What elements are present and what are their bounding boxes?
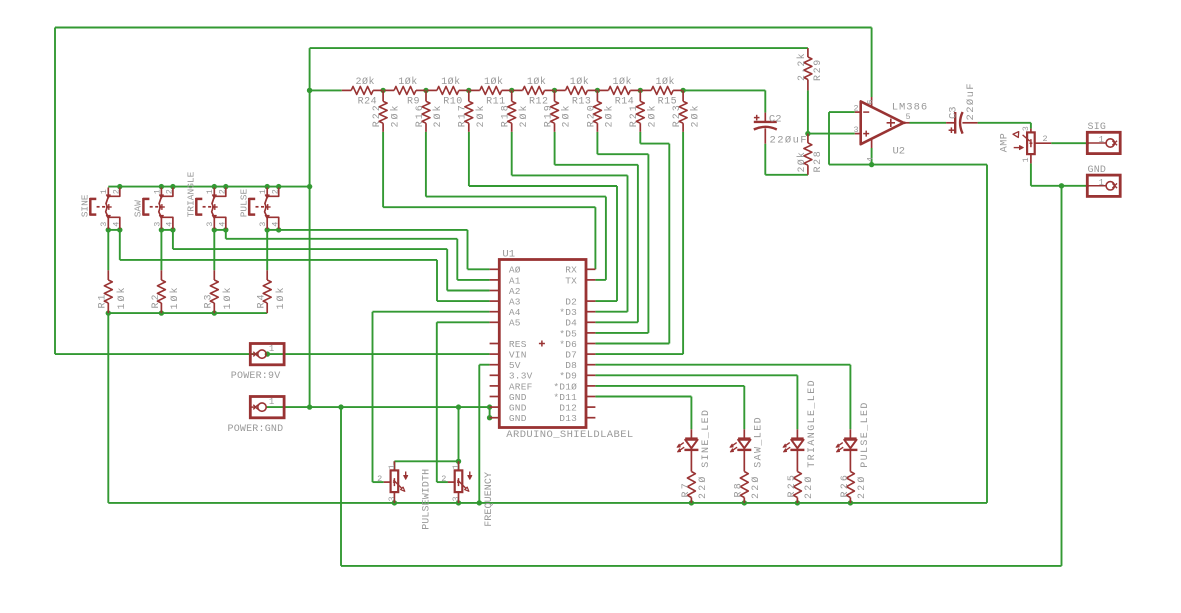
wire net opamp output	[910, 123, 1031, 129]
svg-text:1: 1	[1099, 178, 1104, 188]
svg-text:R16: R16	[415, 103, 426, 127]
junction bottom rail at R7	[689, 500, 694, 505]
LED PULSE_LED	[836, 401, 871, 468]
op-amp U2 LM386	[853, 97, 928, 162]
junction GND rail at pot feed	[456, 404, 461, 409]
svg-text:3: 3	[205, 222, 215, 227]
svg-text:2Øk: 2Øk	[561, 103, 573, 127]
junction bottom rail at 5V feed	[477, 500, 482, 505]
svg-text:4: 4	[218, 222, 228, 227]
svg-text:A5: A5	[509, 318, 521, 329]
wire net A4 to PULSEWIDTH wiper	[373, 312, 490, 482]
wire net C2 to R28	[765, 144, 808, 175]
junction opamp pin4 node	[869, 162, 874, 167]
svg-text:3: 3	[99, 222, 109, 227]
potentiometer PULSEWIDTH	[377, 461, 408, 503]
resistor R13 10k	[556, 76, 596, 107]
switch S1 SINE	[80, 188, 122, 229]
svg-text:AREF: AREF	[509, 381, 533, 392]
wire net D5 ladder bit	[595, 132, 648, 333]
resistor R7 220	[681, 472, 709, 503]
junction switch 4 rail	[265, 184, 282, 189]
switch S2 SAW	[133, 188, 175, 229]
wire net A2 from SAW switch	[173, 230, 490, 291]
wire net D9 to TRIANGLE_LED	[595, 375, 797, 429]
svg-text:2Øk: 2Øk	[518, 103, 530, 127]
resistor R2 10k	[151, 270, 181, 313]
svg-text:SINE: SINE	[80, 194, 91, 217]
svg-text:1Øk: 1Øk	[613, 76, 633, 88]
svg-text:AØ: AØ	[509, 265, 521, 276]
resistor R19 20k	[543, 90, 572, 131]
svg-text:A4: A4	[509, 307, 521, 318]
switch S3 TRIANGLE	[186, 171, 228, 228]
wire net GND spine	[310, 48, 808, 407]
junction switch 4 bottom pins	[265, 227, 282, 232]
svg-text:GND: GND	[509, 413, 527, 424]
svg-text:2Øk: 2Øk	[604, 103, 616, 127]
svg-text:*D3: *D3	[559, 307, 577, 318]
svg-text:1Øk: 1Øk	[169, 285, 181, 309]
svg-text:3: 3	[853, 125, 858, 135]
svg-text:2: 2	[1043, 134, 1048, 144]
node ladder N4	[509, 88, 514, 93]
wire net 9V top rail	[55, 28, 872, 355]
resistor R10 10k	[427, 76, 467, 107]
node ladder N0	[307, 88, 312, 93]
junction GND spine at GND rail	[307, 404, 312, 409]
svg-text:1Øk: 1Øk	[570, 76, 590, 88]
svg-text:22Ø: 22Ø	[750, 474, 762, 499]
LED TRIANGLE_LED	[783, 379, 818, 468]
junction GND rail at U1 GND	[487, 404, 492, 409]
wire net GND out	[1031, 163, 1089, 566]
wire switch pull resistor columns	[108, 230, 267, 270]
potentiometer FREQUENCY	[441, 461, 472, 503]
svg-text:RES: RES	[509, 339, 527, 350]
svg-text:PULSE: PULSE	[239, 188, 250, 217]
capacitor C3 220uF	[946, 82, 978, 134]
wire net SIG	[1051, 142, 1089, 144]
svg-text:*D5: *D5	[559, 328, 577, 339]
svg-text:2Øk: 2Øk	[432, 103, 444, 127]
junction switch 3 rail	[212, 184, 229, 189]
svg-text:U1: U1	[502, 249, 515, 261]
svg-text:D4: D4	[565, 318, 577, 329]
junction pull rail R1	[106, 310, 111, 315]
svg-text:FREQUENCY: FREQUENCY	[484, 472, 495, 527]
svg-text:D8: D8	[565, 360, 577, 371]
svg-text:1: 1	[1021, 157, 1031, 162]
wire net DAC out to C2	[764, 90, 766, 112]
svg-text:22ØuF: 22ØuF	[965, 82, 977, 121]
svg-text:1Øk: 1Øk	[222, 285, 234, 309]
svg-text:R3: R3	[204, 292, 215, 308]
svg-text:2Øk: 2Øk	[355, 76, 375, 88]
wire net 5V from U1	[479, 365, 489, 503]
svg-text:22ØuF: 22ØuF	[770, 135, 809, 147]
junction bottom rail at PULSEWIDTH pot	[392, 500, 397, 505]
junction GND spine at ladder rail	[307, 88, 312, 93]
wire net D2 ladder bit	[469, 132, 617, 301]
svg-text:22Ø: 22Ø	[803, 474, 815, 499]
wire net D10 to SAW_LED	[595, 386, 744, 429]
svg-text:POWER:9V: POWER:9V	[231, 371, 281, 382]
svg-text:SAW_LED: SAW_LED	[754, 416, 765, 468]
svg-text:2: 2	[441, 474, 446, 484]
svg-text:1: 1	[152, 189, 162, 194]
wire net D6 ladder bit	[595, 132, 669, 344]
connector POWER:GND	[228, 397, 285, 435]
resistor R25 220	[787, 472, 815, 503]
svg-text:2.2k: 2.2k	[796, 52, 808, 81]
svg-text:1Øk: 1Øk	[655, 76, 675, 88]
connector POWER:9V	[231, 344, 284, 382]
resistor R23 20k	[672, 90, 701, 131]
resistor R26 220	[840, 472, 868, 503]
junction 9V at POWER:9V pin	[265, 351, 270, 356]
resistor R15 10k	[642, 76, 682, 107]
connector SIG	[1087, 122, 1120, 154]
resistor R11 10k	[470, 76, 510, 107]
svg-text:1: 1	[258, 189, 268, 194]
junction bottom rail at R8	[742, 500, 747, 505]
svg-text:2Øk: 2Øk	[389, 103, 401, 127]
svg-text:TX: TX	[565, 275, 577, 286]
svg-text:GND: GND	[509, 392, 527, 403]
svg-text:1: 1	[451, 464, 461, 469]
resistor R8 220	[734, 472, 762, 503]
resistor R17 20k	[458, 90, 487, 131]
svg-text:TRIANGLE_LED: TRIANGLE_LED	[807, 379, 818, 468]
resistor R14 10k	[599, 76, 639, 107]
wire net opamp minus and gnd	[829, 112, 872, 165]
svg-text:TRIANGLE: TRIANGLE	[186, 171, 197, 217]
svg-text:R19: R19	[543, 103, 554, 127]
svg-text:R26: R26	[840, 473, 851, 498]
svg-text:2: 2	[853, 104, 858, 114]
wire net TX ladder bit	[426, 132, 606, 280]
svg-text:6: 6	[865, 99, 875, 104]
svg-text:1Øk: 1Øk	[116, 285, 128, 309]
junction switch 3 bottom pins	[212, 227, 229, 232]
svg-text:1Øk: 1Øk	[527, 76, 547, 88]
svg-text:A3: A3	[509, 297, 521, 308]
connector GND	[1087, 165, 1120, 197]
resistor R28 20k	[796, 134, 824, 175]
wire net A0 from PULSE switch	[279, 230, 490, 269]
junction bottom rail at R25	[795, 500, 800, 505]
wire net A1 from TRIANGLE switch	[226, 230, 490, 280]
node ladder N5	[552, 88, 557, 93]
LED SINE_LED	[677, 409, 712, 468]
svg-text:2Øk: 2Øk	[475, 103, 487, 127]
svg-text:2: 2	[377, 474, 382, 484]
svg-text:D12: D12	[559, 403, 577, 414]
wire net D4 ladder bit	[555, 132, 638, 322]
svg-text:1Øk: 1Øk	[441, 76, 461, 88]
svg-text:R2: R2	[151, 292, 162, 308]
svg-text:SINE_LED: SINE_LED	[701, 409, 712, 468]
wire pot pin1 feeders	[394, 461, 458, 470]
svg-text:U2: U2	[893, 146, 906, 158]
resistor R16 20k	[415, 90, 444, 131]
svg-text:R4: R4	[257, 292, 268, 308]
junction pot pin1 branch	[456, 459, 461, 464]
resistor R12 10k	[513, 76, 553, 107]
svg-text:4: 4	[112, 222, 122, 227]
svg-text:1: 1	[205, 189, 215, 194]
svg-text:3: 3	[387, 496, 397, 501]
svg-text:*D6: *D6	[559, 339, 577, 350]
svg-text:R25: R25	[787, 473, 798, 498]
svg-text:D13: D13	[559, 413, 577, 424]
resistor R9 10k	[385, 76, 425, 107]
junction pull rail R3	[212, 310, 217, 315]
junction switch 1 bottom pins	[106, 227, 123, 232]
svg-text:3: 3	[152, 222, 162, 227]
svg-text:R28: R28	[813, 150, 824, 173]
svg-text:R17: R17	[458, 103, 469, 127]
wire net opamp plus input	[808, 90, 855, 133]
svg-text:3: 3	[451, 496, 461, 501]
svg-text:R8: R8	[734, 481, 745, 497]
svg-text:1Øk: 1Øk	[398, 76, 418, 88]
junction switch 2 bottom pins	[159, 227, 176, 232]
resistor R21 20k	[629, 90, 658, 131]
wire net A3 from SINE switch	[120, 230, 490, 301]
svg-text:*D9: *D9	[559, 371, 577, 382]
wire ladder rail left	[310, 89, 342, 91]
LED SAW_LED	[730, 416, 765, 468]
junction opamp plus node	[805, 131, 810, 136]
svg-text:AMP: AMP	[1000, 133, 1011, 153]
potentiometer AMP	[1000, 126, 1051, 163]
svg-text:C2: C2	[769, 114, 782, 126]
svg-text:2: 2	[218, 189, 228, 194]
resistor R18 20k	[501, 90, 530, 131]
svg-text:1: 1	[1099, 135, 1104, 145]
IC U1 ARDUINO_SHIELDLABEL	[490, 249, 634, 442]
svg-text:C3: C3	[948, 106, 960, 119]
svg-text:2Øk: 2Øk	[689, 103, 701, 127]
wire net GND rail	[266, 407, 1061, 566]
wire net 5V pull rail	[108, 313, 267, 503]
svg-text:3: 3	[1021, 126, 1031, 131]
svg-text:4: 4	[865, 157, 875, 162]
junction GND spine at switch rail	[307, 184, 312, 189]
svg-text:A1: A1	[509, 275, 521, 286]
svg-text:VIN: VIN	[509, 350, 527, 361]
wire net D11 to SINE_LED	[595, 397, 691, 430]
junction bottom rail at FREQUENCY pot	[456, 500, 461, 505]
resistor R24 20k	[342, 76, 382, 107]
svg-text:2: 2	[271, 189, 281, 194]
svg-text:22Ø: 22Ø	[697, 474, 709, 499]
svg-text:SIG: SIG	[1088, 122, 1107, 133]
wire net D8 to PULSE_LED	[595, 365, 850, 430]
switch S4 PULSE	[239, 188, 281, 229]
svg-text:GND: GND	[509, 403, 527, 414]
svg-text:R29: R29	[813, 58, 824, 81]
svg-text:R1: R1	[98, 292, 109, 308]
junction pull rail R2	[159, 310, 164, 315]
wire net 9V to VIN	[55, 353, 490, 355]
resistor R4 10k	[257, 270, 287, 313]
svg-text:2: 2	[112, 189, 122, 194]
junction switch 2 rail	[159, 184, 176, 189]
junction GND out	[1059, 183, 1064, 188]
node ladder N1	[380, 88, 385, 93]
wire net RX ladder bit	[383, 132, 595, 269]
node ladder N8	[680, 88, 685, 93]
svg-text:R23: R23	[672, 103, 683, 127]
svg-text:GND: GND	[1088, 165, 1107, 176]
svg-text:RX: RX	[565, 265, 577, 276]
wire net D7 ladder bit	[595, 132, 683, 354]
svg-text:SAW: SAW	[133, 200, 144, 217]
wire net 5V bottom rail	[108, 165, 987, 503]
resistor R1 10k	[98, 270, 128, 313]
resistor R3 10k	[204, 270, 234, 313]
junction bottom rail at R26	[848, 500, 853, 505]
svg-text:1: 1	[269, 344, 274, 354]
svg-text:PULSEWIDTH: PULSEWIDTH	[422, 469, 433, 530]
svg-text:1: 1	[269, 397, 274, 407]
svg-text:5: 5	[906, 112, 911, 122]
svg-text:2Øk: 2Øk	[647, 103, 659, 127]
svg-text:2: 2	[165, 189, 175, 194]
resistor R29 2.2k	[796, 48, 824, 90]
wire switch rail	[108, 186, 309, 188]
svg-text:22Ø: 22Ø	[856, 474, 868, 499]
svg-text:3.3V: 3.3V	[509, 371, 533, 382]
svg-text:1Øk: 1Øk	[275, 285, 287, 309]
capacitor C2 220uF	[754, 113, 808, 147]
svg-text:A2: A2	[509, 286, 521, 297]
svg-text:LM386: LM386	[892, 101, 929, 113]
svg-text:R7: R7	[681, 481, 692, 497]
svg-text:POWER:GND: POWER:GND	[228, 424, 284, 435]
node ladder N2	[423, 88, 428, 93]
resistor R22 20k	[372, 90, 401, 131]
svg-text:ARDUINO_SHIELDLABEL: ARDUINO_SHIELDLABEL	[506, 429, 633, 441]
junction switch 1 rail	[117, 184, 122, 189]
wire net D3 ladder bit	[512, 132, 628, 312]
svg-text:*D11: *D11	[553, 392, 577, 403]
svg-text:PULSE_LED: PULSE_LED	[860, 401, 871, 468]
svg-text:4: 4	[271, 222, 281, 227]
resistor R20 20k	[586, 90, 615, 131]
wire ladder rail right to C2	[683, 89, 765, 91]
junction GND rail at U1 GND2	[487, 415, 492, 420]
svg-text:4: 4	[165, 222, 175, 227]
svg-text:1: 1	[387, 464, 397, 469]
svg-text:R20: R20	[586, 103, 597, 127]
svg-text:*D1Ø: *D1Ø	[553, 381, 577, 392]
node ladder N7	[638, 88, 643, 93]
node ladder N6	[595, 88, 600, 93]
svg-text:2Øk: 2Øk	[796, 151, 808, 173]
svg-text:1Øk: 1Øk	[484, 76, 504, 88]
node ladder N3	[466, 88, 471, 93]
svg-text:1: 1	[99, 189, 109, 194]
svg-text:D7: D7	[565, 350, 577, 361]
wire LED cathode columns	[691, 450, 850, 472]
svg-text:5V: 5V	[509, 360, 521, 371]
wire net A5 to FREQUENCY wiper	[437, 322, 490, 482]
svg-text:R18: R18	[501, 103, 512, 127]
svg-text:R21: R21	[629, 103, 640, 127]
svg-text:R22: R22	[372, 103, 383, 127]
svg-text:D2: D2	[565, 297, 577, 308]
svg-text:3: 3	[258, 222, 268, 227]
junction GND rail at x=341	[338, 404, 343, 409]
